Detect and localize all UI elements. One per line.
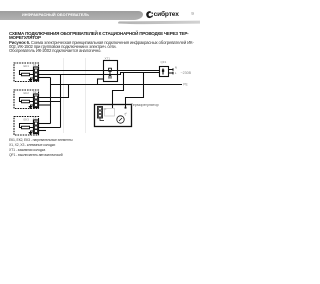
- svg-text:Х2: Х2: [33, 90, 37, 94]
- ground (chassis) heater 2: [29, 105, 34, 108]
- thermostat box: [95, 105, 132, 127]
- wire heater2 pin3: [39, 104, 51, 106]
- wire N bus: [39, 73, 160, 75]
- svg-text:ЕК2: ЕК2: [24, 91, 30, 95]
- svg-text:~230В: ~230В: [181, 71, 192, 75]
- thermostat dial: [117, 116, 124, 123]
- scan crease lines: [64, 58, 86, 133]
- svg-text:ЕК1: ЕК1: [24, 64, 30, 68]
- svg-text:Х3: Х3: [33, 117, 37, 121]
- logo text: [154, 11, 179, 18]
- heater EK1 dashed enclosure: [14, 63, 39, 82]
- svg-text:ХТ1: ХТ1: [105, 57, 111, 61]
- title: [9, 32, 201, 41]
- heating element EK2: [20, 98, 34, 103]
- wire heater2 pin1: [39, 85, 69, 98]
- terminal dot: [125, 107, 127, 109]
- thermostat inner module: [105, 109, 115, 117]
- svg-text:ЕК3: ЕК3: [24, 118, 30, 122]
- svg-text:N: N: [175, 67, 177, 70]
- terminal block X2: [34, 94, 39, 108]
- svg-text:Х1: Х1: [33, 63, 37, 67]
- wire L bus: [39, 70, 160, 72]
- junction box XT1: [104, 61, 118, 82]
- circuit breaker QF1: [160, 67, 174, 77]
- wire heater3 pin1: [39, 123, 51, 125]
- plug-socket symbol inside XT1: [109, 68, 112, 78]
- thermostat terminal block X4: [98, 107, 105, 121]
- wire PE bus: [51, 84, 183, 86]
- terminal block X3: [34, 120, 39, 134]
- svg-text:Терморегулятор: Терморегулятор: [131, 103, 159, 107]
- wire heater3 pin2: [39, 127, 61, 129]
- svg-text:t°: t°: [125, 112, 128, 116]
- header bar text: [22, 13, 152, 17]
- svg-text:PE: PE: [183, 82, 188, 86]
- wire thermostat feed 2: [126, 73, 144, 108]
- wire PE from heater1: [39, 77, 51, 79]
- header light swoosh: [118, 21, 200, 24]
- wire vertical bus V2: [60, 75, 62, 128]
- wire heater2 pin2: [39, 101, 61, 103]
- heater EK3 dashed enclosure: [14, 117, 39, 136]
- ground (chassis) heater 1: [29, 78, 34, 81]
- wire heater3 pin3 stub: [39, 130, 47, 132]
- header gray bar: [0, 11, 143, 21]
- heating element EK3: [20, 124, 34, 129]
- paragraph: [9, 41, 194, 53]
- wire thermostat feed 1: [113, 73, 124, 109]
- terminal block X1: [34, 67, 39, 81]
- svg-text:L: L: [175, 72, 177, 75]
- svg-text:QF1: QF1: [161, 60, 167, 64]
- captions: [9, 138, 73, 158]
- wire junction box PE drop: [98, 79, 104, 85]
- heater EK2 dashed enclosure: [14, 90, 39, 109]
- logo icon: [146, 11, 154, 19]
- ground (chassis) heater 3: [29, 131, 34, 134]
- page number: [191, 12, 194, 17]
- heating element EK1: [20, 71, 34, 76]
- wire vertical bus V1: [50, 78, 52, 124]
